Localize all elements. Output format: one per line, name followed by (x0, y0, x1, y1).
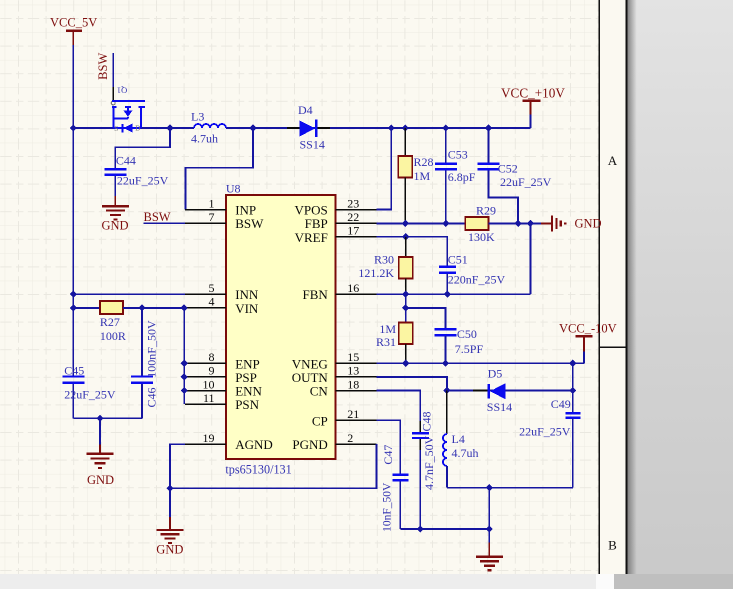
svg-text:18: 18 (347, 377, 359, 391)
wire R29 to GND port (489, 222, 553, 224)
power port VCC_5V (50, 15, 97, 45)
capacitor C44 (104, 147, 126, 196)
wire main top rail y=128 right part (226, 127, 531, 129)
svg-text:R28: R28 (414, 155, 434, 169)
svg-text:6.8pF: 6.8pF (448, 170, 476, 184)
svg-text:GND: GND (156, 542, 183, 556)
resistor R31 (399, 323, 413, 364)
svg-text:CP: CP (312, 413, 328, 428)
junction top rail at VPOS riser (388, 124, 395, 131)
svg-text:9: 9 (209, 364, 215, 378)
svg-text:B: B (608, 537, 617, 552)
pin 18 CN of U8 (310, 377, 377, 398)
svg-text:23: 23 (347, 196, 359, 210)
svg-text:121.2K: 121.2K (358, 266, 394, 280)
svg-text:100R: 100R (100, 329, 126, 343)
wire D5/L4 row (447, 390, 573, 392)
capacitor C45 (62, 377, 84, 419)
pin 7 BSW of U8 (185, 210, 264, 231)
svg-text:SS14: SS14 (487, 400, 512, 414)
wire BSW gate vertical (112, 53, 114, 87)
svg-text:22: 22 (347, 210, 359, 224)
svg-text:4.7uh: 4.7uh (191, 132, 218, 146)
junction INN at rail (70, 291, 77, 298)
junction top rail at C53 (442, 124, 449, 131)
svg-text:C50: C50 (457, 327, 477, 341)
pin 2 PGND of U8 (292, 431, 376, 452)
svg-text:D4: D4 (298, 103, 313, 117)
svg-text:R27: R27 (100, 315, 120, 329)
svg-text:PSN: PSN (235, 397, 259, 412)
pin 5 INN of U8 (185, 281, 259, 302)
resistor R30 (399, 237, 413, 294)
junction VIN at enable riser (181, 304, 188, 311)
wire GND riser from bottom row (488, 488, 490, 529)
svg-text:220nF_25V: 220nF_25V (448, 273, 506, 287)
wire VNEG row pin 15 to VCC_-10V (376, 362, 584, 364)
svg-text:4.7uh: 4.7uh (452, 446, 479, 460)
pin 1 INP of U8 (185, 196, 256, 217)
svg-text:5: 5 (209, 281, 215, 295)
wire L4 bottom row to C49 bottom (447, 487, 573, 489)
svg-text:10nF_50V: 10nF_50V (382, 482, 394, 532)
svg-text:CN: CN (310, 384, 329, 399)
svg-text:D: D (135, 125, 140, 133)
junction bottom row at GND stem (486, 525, 493, 532)
wire OUTN pin 13 to switch node (376, 377, 447, 391)
pin 16 FBN of U8 (303, 281, 377, 302)
ground GND bottom center (476, 529, 503, 570)
junction D5 anode node (569, 387, 576, 394)
junction top rail at R28 (402, 124, 409, 131)
svg-text:C48: C48 (419, 411, 433, 431)
diode D5 (473, 383, 505, 399)
svg-text:15: 15 (347, 350, 359, 364)
pin 23 VPOS of U8 (295, 196, 377, 217)
pin 13 OUTN of U8 (292, 364, 377, 385)
pin 4 VIN of U8 (185, 295, 259, 316)
wire VIN row right segment (123, 307, 185, 309)
svg-text:VREF: VREF (295, 230, 328, 245)
wire BSW to pin 7 (143, 222, 185, 224)
svg-text:17: 17 (347, 224, 359, 238)
capacitor C48 (412, 421, 429, 529)
svg-text:FBN: FBN (303, 287, 329, 302)
wire CP pin 21 to C47 (376, 420, 400, 474)
zone divider line (599, 346, 626, 348)
wire VIN row left segment (73, 307, 100, 309)
svg-text:4: 4 (209, 295, 215, 309)
resistor R29 (465, 217, 488, 230)
junction AGND/PGND (167, 485, 174, 492)
capacitor C47 (392, 475, 408, 529)
svg-text:4.7nF_50V: 4.7nF_50V (422, 435, 436, 490)
svg-text:C44: C44 (116, 153, 136, 167)
wire FBN row pin 16 (376, 293, 530, 295)
pin 8 ENP of U8 (185, 350, 260, 371)
svg-text:19: 19 (203, 431, 215, 445)
wire R30-R31 link (405, 294, 407, 322)
sheet inner border line (598, 0, 600, 574)
junction link at C50 tap (402, 304, 409, 311)
inductor L4 (443, 391, 447, 488)
capacitor C50 (435, 329, 457, 363)
svg-text:22uF_25V: 22uF_25V (500, 175, 552, 189)
junction top rail at C52 (485, 124, 492, 131)
junction FBN at C51 (444, 291, 451, 298)
svg-text:VIN: VIN (235, 301, 259, 316)
junction L4 bottom at GND riser (486, 484, 493, 491)
junction VREF at R30 (402, 233, 409, 240)
pin 22 FBP of U8 (305, 210, 377, 231)
junction VIN at C46 (138, 304, 145, 311)
inductor L3 (194, 124, 226, 128)
op-amp U8 ic body tps65130 (226, 195, 336, 459)
svg-text:16: 16 (347, 281, 359, 295)
application gray panel right (628, 0, 733, 589)
svg-text:VCC_-10V: VCC_-10V (559, 321, 617, 335)
svg-text:GND: GND (102, 218, 129, 232)
junction FBP at C53 (442, 220, 449, 227)
svg-text:GND: GND (575, 217, 602, 231)
svg-text:C45: C45 (64, 363, 84, 377)
wire AGND pin 19 to ground (170, 444, 185, 517)
wire INN row from 5V rail to pin 5 (73, 293, 185, 295)
wire PGND pin 2 down and across (170, 444, 376, 488)
wire VCC_+10V stem to rail (530, 115, 532, 129)
svg-text:L4: L4 (452, 432, 465, 446)
svg-text:C52: C52 (498, 162, 518, 176)
junction top rail at D4 anode branch (249, 124, 256, 131)
svg-text:D5: D5 (488, 367, 503, 381)
svg-text:C53: C53 (448, 147, 468, 161)
svg-text:S: S (114, 125, 118, 133)
junction riser pin 9 (181, 373, 188, 380)
wire VREF row pin 17 to C51 (376, 237, 447, 266)
svg-text:1: 1 (209, 196, 215, 210)
wire VNEG branch down to C49 and D5 row (572, 363, 574, 412)
ground GND right (rotated) (541, 215, 602, 231)
ground GND under AGND (156, 517, 183, 556)
svg-text:R31: R31 (376, 335, 396, 349)
svg-text:A: A (608, 153, 618, 168)
svg-text:tps65130/131: tps65130/131 (225, 463, 291, 477)
svg-text:L3: L3 (191, 110, 204, 124)
svg-text:BSW: BSW (235, 216, 264, 231)
svg-text:8: 8 (209, 350, 215, 364)
pin 19 AGND of U8 (185, 431, 273, 452)
svg-text:13: 13 (347, 364, 359, 378)
junction riser pin 8 (181, 360, 188, 367)
wire FBN riser to R29 net (529, 223, 531, 294)
svg-text:VCC_5V: VCC_5V (50, 15, 97, 29)
resistor R28 (398, 128, 412, 223)
diode D4 (287, 120, 330, 137)
junction VIN at rail (70, 304, 77, 311)
svg-text:100nF_50V: 100nF_50V (144, 320, 158, 378)
svg-text:21: 21 (347, 407, 359, 421)
pin 21 CP of U8 (312, 407, 376, 428)
svg-text:BSW: BSW (144, 210, 171, 224)
junction VNEG at C49 branch (569, 360, 576, 367)
wire enable riser x=184 to pins 8-11 (183, 308, 185, 404)
pin 15 VNEG of U8 (292, 350, 377, 371)
svg-text:C47: C47 (381, 445, 395, 465)
svg-text:22uF_25V: 22uF_25V (64, 387, 116, 401)
svg-text:22uF_25V: 22uF_25V (519, 424, 571, 438)
svg-text:Q1: Q1 (117, 86, 127, 96)
svg-text:7.5PF: 7.5PF (455, 342, 484, 356)
svg-text:R29: R29 (476, 204, 496, 218)
wire INP net from L3/D4 node to pin 1 (186, 128, 254, 210)
svg-text:SS14: SS14 (300, 138, 325, 152)
junction switch node at L4/D5 (443, 387, 450, 394)
wire FBP row pin 22 to R29 (376, 222, 465, 224)
junction FBN at R30/R31 (402, 291, 409, 298)
junction R29 net at FBN riser (527, 220, 534, 227)
capacitor C51 (439, 267, 456, 294)
junction top rail at VCC_5V riser (70, 124, 77, 131)
pin 10 ENN of U8 (185, 377, 262, 398)
ground GND under C45/C46 (87, 418, 115, 487)
resistor R27 (100, 301, 123, 314)
wire VCC_5V vertical rail x=73 (72, 45, 74, 376)
wire VCC_-10V stem (583, 352, 585, 364)
power port VCC_-10V (559, 321, 617, 351)
svg-text:130K: 130K (468, 230, 495, 244)
svg-text:AGND: AGND (235, 437, 273, 452)
svg-text:PGND: PGND (292, 437, 327, 452)
capacitor C46 (131, 308, 153, 418)
sheet outer border line (625, 0, 627, 589)
svg-text:10: 10 (203, 377, 215, 391)
junction VNEG at C50 (442, 360, 449, 367)
junction top rail at C44 tap (166, 124, 173, 131)
wire C45/C46 bottom join (73, 417, 142, 419)
panel left inner shadow (628, 0, 637, 589)
svg-text:C49: C49 (551, 397, 571, 411)
wire VPOS riser to pin 23 (376, 128, 391, 210)
capacitor C52 (478, 128, 519, 223)
pin 9 PSP of U8 (185, 364, 257, 385)
sheet margin area (599, 0, 626, 574)
wire main top rail y=128 left part (73, 127, 194, 129)
wire C50 tap (406, 308, 446, 328)
pin 11 PSN of U8 (185, 391, 259, 412)
svg-text:2: 2 (347, 431, 353, 445)
junction VNEG at R31 (402, 360, 409, 367)
svg-text:1M: 1M (414, 169, 431, 183)
power port VCC_+10V (501, 86, 565, 115)
junction riser pin 10 (181, 387, 188, 394)
horizontal scrollbar strip (0, 574, 733, 589)
ground GND under C44 (102, 196, 129, 232)
transistor Q1 PMOS symbol (111, 87, 145, 133)
capacitor C53 (435, 128, 457, 223)
svg-text:C46: C46 (144, 387, 158, 407)
junction bottom row at C48 (417, 525, 424, 532)
junction FBP at R28 (402, 220, 409, 227)
wire from top rail to C44 (115, 128, 170, 163)
pin 17 VREF of U8 (295, 224, 377, 245)
svg-text:BSW: BSW (96, 53, 110, 80)
wire CN pin 18 to C48 (376, 391, 420, 422)
junction R29 net at C52 drop (515, 220, 522, 227)
junction at GND stem under C45 (96, 415, 103, 422)
svg-text:22uF_25V: 22uF_25V (117, 173, 169, 187)
svg-text:GND: GND (87, 473, 114, 487)
wire charge-pump bottom row y=529 (400, 528, 489, 530)
svg-text:7: 7 (209, 210, 215, 224)
svg-text:VCC_+10V: VCC_+10V (501, 86, 565, 101)
svg-text:U8: U8 (226, 181, 241, 195)
svg-text:11: 11 (203, 391, 215, 405)
svg-text:R30: R30 (374, 253, 394, 267)
capacitor C49 (565, 413, 580, 487)
svg-text:C51: C51 (448, 252, 468, 266)
